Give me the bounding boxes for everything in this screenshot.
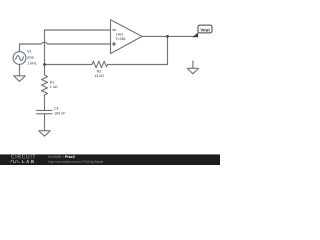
wire R1 to C1 — [44, 95, 46, 110]
svg-text:TL081: TL081 — [115, 37, 125, 41]
ground under C1 — [39, 130, 50, 132]
svg-text:sine: sine — [27, 55, 34, 59]
resistor R1 — [42, 75, 48, 95]
capacitor C1 top plate — [37, 109, 53, 111]
svg-text:R1: R1 — [50, 80, 55, 84]
Vout flag box — [198, 25, 212, 33]
wire feedback vertical — [167, 36, 169, 64]
op-amp OA1 triangle — [111, 20, 143, 54]
svg-text:OA1: OA1 — [116, 33, 123, 37]
wire R2 left lead — [45, 64, 93, 66]
V1 sine glyph — [16, 56, 24, 61]
wire op-amp output to Vout — [142, 35, 194, 37]
Vout flag pointer — [192, 32, 198, 37]
footer bar — [0, 154, 220, 165]
node junction at op-amp output — [166, 35, 169, 38]
node junction at node A — [43, 63, 46, 66]
wire V1 bottom lead — [19, 64, 21, 75]
wire noninverting input (hops over node A rail) — [20, 42, 111, 44]
svg-text:http://circuitlab.com/c/7592f4: http://circuitlab.com/c/7592f4p56a6t — [48, 160, 103, 164]
svg-text:Vout: Vout — [200, 28, 210, 33]
svg-text:C1: C1 — [54, 106, 59, 110]
svg-text:R2: R2 — [97, 69, 102, 73]
resistor R2 — [92, 61, 108, 68]
svg-text:160 nF: 160 nF — [54, 111, 66, 115]
svg-text:1 kHz: 1 kHz — [27, 61, 37, 65]
svg-text:LAB: LAB — [22, 159, 36, 164]
ground under V1 — [14, 75, 26, 77]
wire V1 top lead — [19, 44, 21, 52]
op-amp plus sign — [112, 43, 116, 45]
svg-text:techieflix / Prac3: techieflix / Prac3 — [48, 155, 75, 159]
svg-text:V1: V1 — [27, 50, 32, 54]
svg-text:14 kΩ: 14 kΩ — [94, 74, 104, 78]
capacitor C1 bottom plate — [37, 113, 53, 115]
op-amp minus sign — [112, 29, 116, 31]
footer CircuitLab logo — [10, 155, 104, 164]
voltage source V1 circle — [13, 52, 26, 65]
wire C1 to ground — [44, 114, 46, 131]
svg-text:1 kΩ: 1 kΩ — [50, 85, 58, 89]
wire R2 right lead — [108, 64, 168, 66]
ground floating near output — [192, 61, 194, 68]
wire inverting input — [45, 29, 111, 31]
wire node A vertical rail — [44, 30, 46, 75]
